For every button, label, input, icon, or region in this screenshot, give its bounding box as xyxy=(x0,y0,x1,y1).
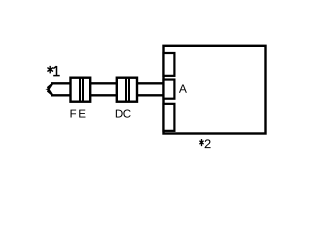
label *1 xyxy=(47,66,59,76)
connector F/E body xyxy=(71,78,91,102)
connector F/E mating faces xyxy=(80,78,83,102)
unit *2 box xyxy=(164,46,266,134)
connector D/C mating faces xyxy=(126,78,129,102)
label E xyxy=(79,110,85,118)
terminal tab A (middle) xyxy=(164,80,175,99)
wire: connector F/E to connector D/C xyxy=(90,83,117,95)
label A (terminal) xyxy=(179,84,187,92)
label D xyxy=(116,110,123,118)
plug *1 (cable end chevron) xyxy=(45,82,52,96)
wire: plug to connector F/E xyxy=(51,83,71,95)
terminal tab top xyxy=(164,53,175,76)
label F xyxy=(71,110,77,118)
label C xyxy=(123,109,130,117)
label *2 xyxy=(199,139,210,148)
terminal tab bottom xyxy=(164,104,175,131)
connector D/C body xyxy=(117,78,137,102)
wire: connector D/C to unit *2 xyxy=(137,83,164,95)
